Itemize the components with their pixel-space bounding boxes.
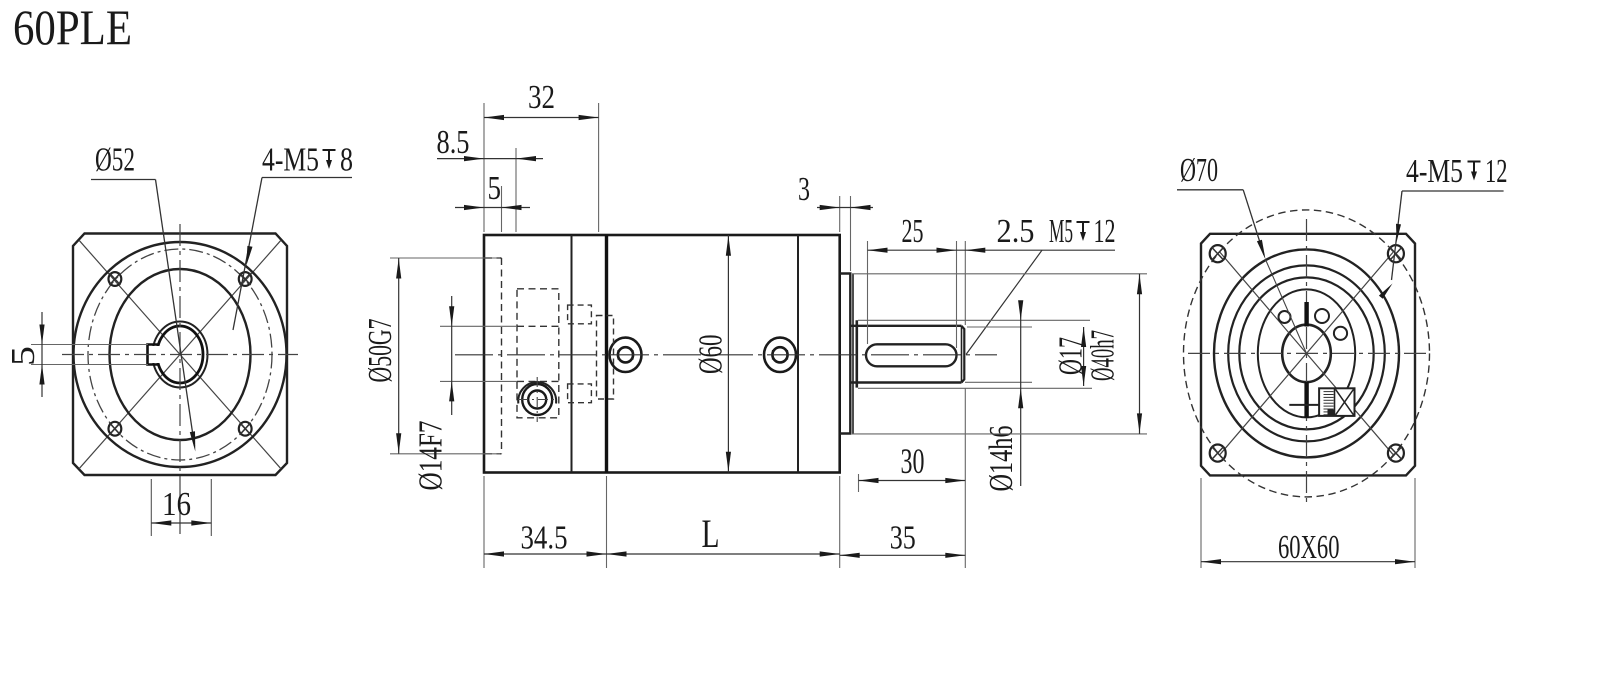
dim5 ext line top [31,344,148,346]
svg-text:5: 5 [488,170,502,207]
dim5 line [41,312,43,397]
O17 collar at shaft root [855,320,858,387]
dim60x60 arrow right [1395,559,1415,564]
middle horizontal centerline [455,354,997,356]
O52 underline [91,179,156,181]
svg-text:L: L [702,511,720,556]
ext line body left top [483,103,485,232]
svg-text:5: 5 [5,346,42,366]
dim8.5 arrow left [464,156,484,161]
dim25 arrow right [937,248,957,253]
right view outer circle [1214,249,1399,457]
O70 underline [1177,189,1243,191]
shaft keyway slot [866,344,957,366]
right view diagonal 1 [1219,252,1393,456]
dimL line [607,553,840,555]
4-M5-12 leader [1392,191,1403,280]
dim5 ext line bottom [31,364,148,366]
middle view body outline [484,235,840,473]
4-M5-12 leader arrow [1396,224,1401,242]
hidden recess top [485,257,502,259]
dim35 arrow left [840,553,860,558]
hidden collar lower [568,384,592,403]
dim34.5 arrow left [484,551,504,556]
right view bore circle [1282,325,1331,382]
svg-text:25: 25 [902,213,924,250]
right view vertical centerline [1306,219,1308,506]
right view carrier circle [1258,289,1355,417]
depth symbol right label [1468,162,1481,176]
4-M5 underline [262,177,352,179]
dim16 arrow right [191,520,211,525]
middle section line 3 [797,235,799,473]
svg-text:4-M5: 4-M5 [262,142,319,179]
dimL arrow right [820,551,840,556]
dimO60 arrow top [726,236,731,256]
ext shaft bottom right [965,381,1032,383]
right view circle 2 [1228,265,1385,441]
key bar upper [1304,302,1308,327]
hidden recess line [501,258,503,454]
dimO40h7 line [1139,274,1141,434]
body screw right [764,338,796,372]
svg-text:Ø52: Ø52 [95,142,135,179]
left view horizontal centerline [62,354,298,356]
dim30 ext left [858,474,860,492]
shaft end face [962,326,965,383]
middle section line 2 thick [605,235,608,473]
hidden hub bore top [517,325,559,327]
dim16 ext right [210,479,212,536]
svg-text:60X60: 60X60 [1278,529,1340,566]
dim8.5 line [437,158,543,160]
dimO50G7 ext top [390,257,500,259]
dim5mid arrow left [464,205,484,210]
dim25 ext right [956,241,958,348]
dim35 arrow right [945,553,965,558]
hidden sleeve [597,316,614,400]
left view M5 hole top-right [239,272,252,286]
clamp screw counterbore arc [518,382,556,403]
left view bore outer ring [153,322,208,388]
svg-text:60PLE: 60PLE [13,0,132,55]
dim32 ext right [598,103,600,232]
dim60x60 arrow left [1201,559,1221,564]
dim60x60 ext left [1200,478,1202,568]
svg-text:Ø50G7: Ø50G7 [362,319,399,383]
dim30 arrow right [945,478,965,483]
dim16 arrow left [151,520,171,525]
dim5mid arrow right [502,205,522,210]
dimO50G7 arrow bottom [396,433,401,453]
dimO40h7 ext bottom [852,433,1147,435]
dim8.5 arrow right [516,156,536,161]
dim25 2.5 line [868,249,1116,251]
dim30 arrow left [859,478,879,483]
output pilot boss O40 [840,274,851,434]
dim16 line [151,522,211,524]
dim30-35 ext right [964,388,966,568]
left view M5 hole bottom-left [109,422,122,436]
key block hatch [1324,392,1334,415]
planet hole 2 [1315,309,1329,323]
left view vertical centerline [179,224,181,538]
left view M5 hole top-left [109,272,122,286]
ext shaft top right [967,326,1032,328]
middle section line 1 [571,235,573,473]
dim60x60 ext right [1414,478,1416,568]
O52 leader arrow [190,431,196,451]
dimO14h6 arrow bottom [1018,388,1023,408]
dimO40h7 arrow bottom [1137,413,1142,433]
shaft top line [850,325,961,327]
svg-text:Ø14h6: Ø14h6 [983,426,1020,492]
dim32 arrow right [579,115,599,120]
dimO60 arrow bottom [726,452,731,472]
svg-text:3: 3 [798,171,810,208]
dimO14h6 arrow top [1018,300,1023,320]
hidden input hub [517,289,559,418]
dim16 ext left [150,479,152,536]
4-M5-12 underline [1402,190,1504,192]
dimO14F7 ext top [440,325,517,327]
dimO17 arrow top [1081,327,1086,347]
right view horizontal centerline [1188,352,1426,354]
dim35 line [840,554,966,556]
right view M5 hole top-left [1210,245,1226,262]
dim60x60 line [1201,561,1415,563]
4-M5 leader line [233,178,262,331]
body screw left [610,338,642,372]
O70 leader extension [1266,260,1307,354]
key block diagonal 2 [1336,389,1354,415]
hidden hub bore bottom [517,380,559,382]
dim2.5 arrow [965,248,985,253]
dim32 line [484,117,599,119]
dim25 arrow left [868,248,888,253]
right view M5 hole bottom-right [1388,445,1404,462]
dimO17 line [1083,327,1085,386]
left view bolt circle O52 [88,249,272,460]
right view M5 hole top-right [1388,245,1404,262]
svg-text:12: 12 [1094,213,1116,250]
dim3 line [817,207,873,209]
dimL arrow left [607,551,627,556]
key bar tick [1289,404,1319,406]
dim3 arrow left [820,205,840,210]
right view diagonal 2 [1219,252,1393,456]
svg-text:30: 30 [901,441,925,481]
svg-text:4-M5: 4-M5 [1406,153,1463,190]
svg-text:8: 8 [340,142,353,179]
O70 leader arrow [1257,240,1266,260]
boss face second line [852,274,854,434]
dim2.5 ext right [964,241,966,325]
key block dark corner [1328,410,1335,416]
hidden collar upper [568,305,592,324]
4-M5 leader arrow [246,246,252,266]
planet hole 3 [1334,327,1347,340]
svg-text:32: 32 [528,79,555,116]
dim5 arrow top [39,325,44,345]
dimO14h6 line [1020,302,1022,486]
dimO40h7 ext top [852,273,1147,275]
dim5mid ext right [501,186,503,232]
left view M5 hole bottom-right [239,422,252,436]
dimO17 arrow bottom [1081,366,1086,386]
dim5 arrow bottom [39,365,44,385]
right view square flange [1201,234,1415,476]
left view square flange [73,234,287,476]
left view diagonal line 2 [79,240,281,469]
svg-text:2.5: 2.5 [997,213,1035,250]
clamp screw horiz centerline [518,399,557,401]
dimO14F7 arrow top [449,306,454,326]
right view circle 3 [1239,277,1373,429]
dim32 arrow left [484,115,504,120]
shaft bottom line [850,381,961,383]
planet hole 1 [1279,311,1291,323]
right view M5 hole bottom-left [1210,445,1226,462]
dim35 ext left [839,476,841,568]
key block diagonal 1 [1336,389,1354,415]
diagonal arrow at hole [1379,284,1393,299]
dimO14F7 arrow bottom [449,381,454,401]
dimO50G7 ext bottom [390,453,500,455]
left view outer circle [74,242,287,467]
svg-text:Ø60: Ø60 [693,335,730,375]
dim34.5 arrow right [587,551,607,556]
dim34.5 ext left [483,476,485,568]
key block divider [1334,388,1336,416]
dim25 ext left [867,241,869,344]
M5 leader line [966,250,1042,354]
dimO17 ext top [858,319,1090,321]
svg-text:12: 12 [1485,153,1508,190]
key bar lower [1304,382,1308,418]
shaft end chamfer line [961,327,963,383]
svg-text:8.5: 8.5 [437,124,470,161]
svg-text:34.5: 34.5 [521,520,568,557]
left view keyway slot [148,345,158,365]
dimO50G7 arrow top [396,259,401,279]
dim3 ext right [850,196,852,271]
dim3 ext left [839,196,841,232]
svg-text:35: 35 [890,520,916,557]
depth symbol left label [323,150,336,164]
O70 leader [1243,190,1264,255]
dimO14F7 line [451,296,453,415]
svg-text:16: 16 [162,486,191,523]
dimO14F7 ext bottom [440,380,517,382]
O52 leader line [156,180,195,447]
svg-text:Ø70: Ø70 [1180,152,1218,189]
left view pilot circle [110,269,251,440]
dimO40h7 arrow top [1137,274,1142,294]
clamp screw vert centerline [536,377,538,422]
svg-text:Ø14F7: Ø14F7 [413,421,450,491]
left view bore circle [157,326,203,383]
dimO17 ext bottom [858,387,1092,389]
hidden recess bottom [485,453,502,455]
dim8.5 ext right [515,148,517,232]
key block [1319,388,1354,416]
dim3 arrow right [851,205,871,210]
svg-text:M5: M5 [1049,213,1073,250]
right view O70 dashed circle [1184,210,1430,497]
dimO60 line [727,235,729,473]
dimO50G7 line [398,258,400,454]
dim34.5 line [484,553,607,555]
depth symbol M5 [1077,222,1090,236]
clamp screw [522,384,552,415]
svg-text:Ø40h7: Ø40h7 [1085,330,1122,381]
left view diagonal line 1 [79,240,281,469]
dim5mid line [455,207,530,209]
dim30 line [859,480,966,482]
dim34.5 ext right [606,476,608,568]
